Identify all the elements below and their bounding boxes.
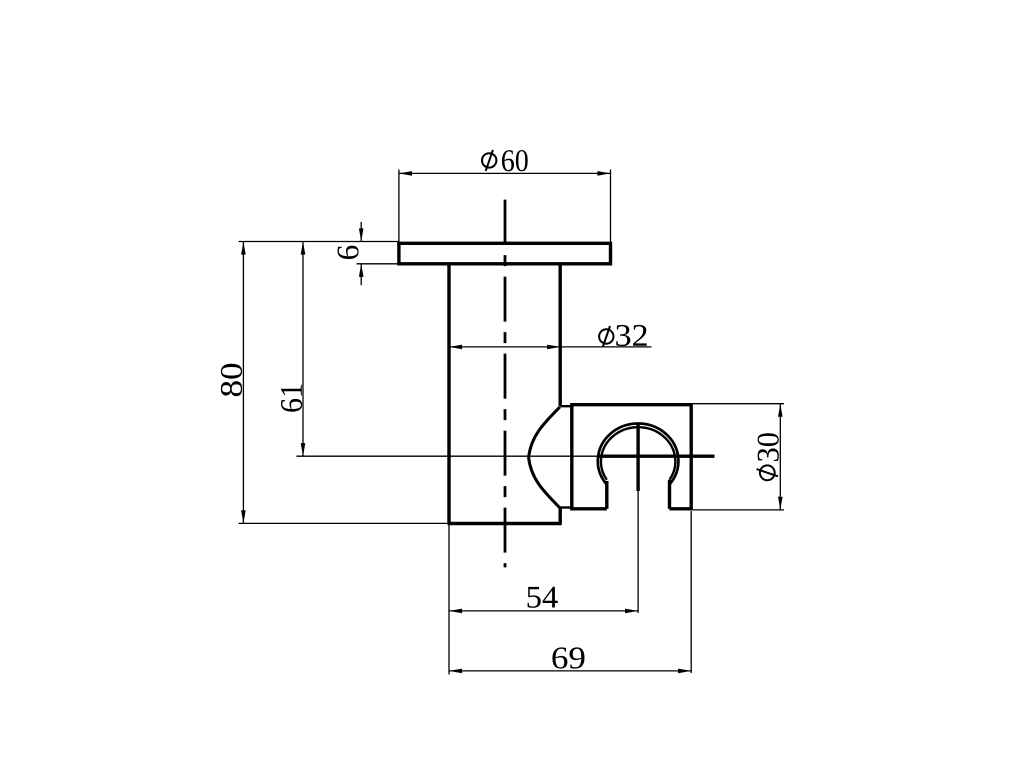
dim 6 upper leg bbox=[360, 222, 362, 242]
holder bracket outline bbox=[572, 405, 691, 509]
dim 69 line bbox=[449, 670, 691, 672]
slot left edge bbox=[605, 481, 608, 509]
dim 6 extension bottom bbox=[357, 263, 399, 265]
dim 6 extension top (also reference line for 80/61) bbox=[239, 241, 399, 243]
dim ⌀30 line bbox=[779, 404, 781, 510]
dim 6 label bbox=[338, 246, 359, 259]
dim 80 label bbox=[221, 364, 242, 396]
dim ⌀32 label bbox=[599, 325, 647, 347]
holder crosshair vertical (thick) bbox=[636, 423, 639, 491]
dim ⌀30 arrow top bbox=[778, 404, 783, 417]
dim 80 bottom extension bbox=[239, 522, 449, 524]
dim 69 label bbox=[552, 647, 584, 668]
pipe right edge lower segment bbox=[559, 507, 562, 523]
centerline vertical (pipe axis) bbox=[504, 200, 507, 568]
holder crosshair horizontal (thick) bbox=[598, 455, 715, 458]
dim 54 arrow right bbox=[625, 609, 638, 614]
dim 54 label bbox=[528, 587, 558, 608]
dim ⌀32 arrow left bbox=[449, 345, 462, 350]
jog bottom (pipe edge to bracket) bbox=[560, 506, 572, 508]
extension bracket-right downward bbox=[690, 511, 692, 673]
dim 61 arrow bottom bbox=[301, 443, 306, 456]
dim ⌀30 arrow bottom bbox=[778, 497, 783, 510]
dim ⌀32 line bbox=[449, 346, 651, 348]
dim ⌀30 extension bottom bbox=[693, 509, 784, 511]
dim 80 arrow top bbox=[241, 242, 246, 255]
dim ⌀32 arrow right bbox=[547, 345, 560, 350]
dim 6 arrow down bbox=[359, 228, 364, 241]
bump (rounded nose between pipe and holder) bbox=[529, 407, 560, 508]
dim 61 arrow top bbox=[301, 242, 306, 255]
flange (top plate, 60 dia x 6 thick) bbox=[399, 243, 611, 263]
dim 80 arrow bottom bbox=[241, 510, 246, 523]
dim 6 lower leg bbox=[360, 264, 362, 285]
dim ⌀60 extension right bbox=[610, 170, 612, 242]
pipe bottom edge bbox=[448, 522, 562, 525]
jog top (pipe edge to bracket) bbox=[560, 405, 572, 407]
dim ⌀30 label bbox=[757, 433, 779, 480]
extension pipe-left downward bbox=[448, 525, 450, 675]
holder outer arc (C-clip outer wall) bbox=[598, 424, 679, 485]
dim 69 arrow right bbox=[678, 669, 691, 674]
extension holder-center downward bbox=[637, 491, 639, 613]
pipe left edge bbox=[447, 264, 450, 524]
pipe right edge upper segment bbox=[559, 264, 562, 407]
dim 61 line bbox=[302, 242, 304, 457]
slot right edge bbox=[668, 480, 671, 509]
dim ⌀30 extension top bbox=[693, 403, 784, 405]
dim 54 arrow left bbox=[449, 609, 462, 614]
dim ⌀60 label bbox=[482, 150, 528, 171]
dim 61 extension (holder centerline, thin part) bbox=[296, 455, 597, 457]
dim 80 line bbox=[242, 242, 244, 524]
dim ⌀60 arrow right bbox=[597, 171, 610, 176]
dim 69 arrow left bbox=[449, 669, 462, 674]
dim ⌀60 extension left bbox=[398, 170, 400, 242]
dim ⌀60 arrow left bbox=[399, 171, 412, 176]
holder inner arc (C-clip inner wall) bbox=[601, 427, 675, 480]
dim 6 arrow up bbox=[359, 264, 364, 277]
dim 61 label bbox=[281, 385, 302, 412]
dim ⌀60 line bbox=[399, 172, 611, 174]
dim 54 line bbox=[449, 610, 638, 612]
